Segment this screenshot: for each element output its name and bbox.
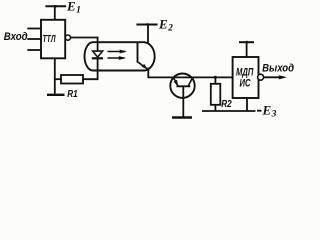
optocoupler U2 body	[85, 42, 146, 70]
wire MDP bottom lead to rail	[246, 98, 248, 111]
light arrow 1	[108, 50, 128, 54]
output wire with arrow (node Выход)	[262, 62, 294, 79]
svg-text:E2: E2	[158, 16, 173, 33]
ground (under TTL)	[47, 94, 65, 96]
wire R1 right to LED cathode	[83, 59, 98, 79]
wire bubble to LED anode	[71, 38, 98, 52]
resistor R2	[211, 84, 232, 110]
wire R2 top	[214, 77, 216, 84]
negative rail to E3	[202, 110, 256, 112]
svg-text:R2: R2	[221, 99, 232, 110]
svg-text:E3: E3	[262, 102, 277, 119]
inverter output bubble	[65, 35, 70, 40]
svg-text:Выход: Выход	[262, 62, 294, 74]
TTL bottom lead wire	[54, 58, 56, 94]
power terminal E1	[45, 0, 81, 15]
LED (optocoupler emitter diode)	[92, 51, 103, 58]
power terminal (MDP box top)	[239, 41, 254, 44]
input stubs node Вход	[4, 29, 41, 51]
svg-text:E1: E1	[66, 0, 81, 15]
wire R1 left to ground line	[55, 78, 61, 80]
transistor VT1 (PNP)	[170, 74, 194, 118]
svg-text:ТТЛ: ТТЛ	[43, 33, 57, 45]
svg-text:ИС: ИС	[240, 77, 252, 89]
wire MDP top lead	[246, 42, 248, 57]
svg-text:Вход: Вход	[4, 31, 28, 43]
power terminal E3 label	[257, 102, 277, 119]
output bubble	[258, 74, 264, 80]
wire R2 bottom to rail	[214, 105, 216, 111]
svg-text:R1: R1	[67, 89, 78, 100]
light arrow 2	[108, 56, 127, 60]
TTL driver box U1	[41, 20, 65, 59]
resistor R1	[61, 75, 83, 100]
wire E1 to TTL box	[54, 6, 56, 19]
wire phototransistor collector to E2	[147, 25, 149, 44]
ground (under VT1)	[172, 116, 192, 118]
node junction dot R2 top	[214, 76, 217, 79]
phototransistor (optocoupler detector)	[138, 42, 155, 70]
MDP IC box U3	[233, 57, 259, 98]
power terminal E2	[136, 16, 173, 33]
wire phototransistor emitter to VT1 base area	[148, 68, 232, 78]
